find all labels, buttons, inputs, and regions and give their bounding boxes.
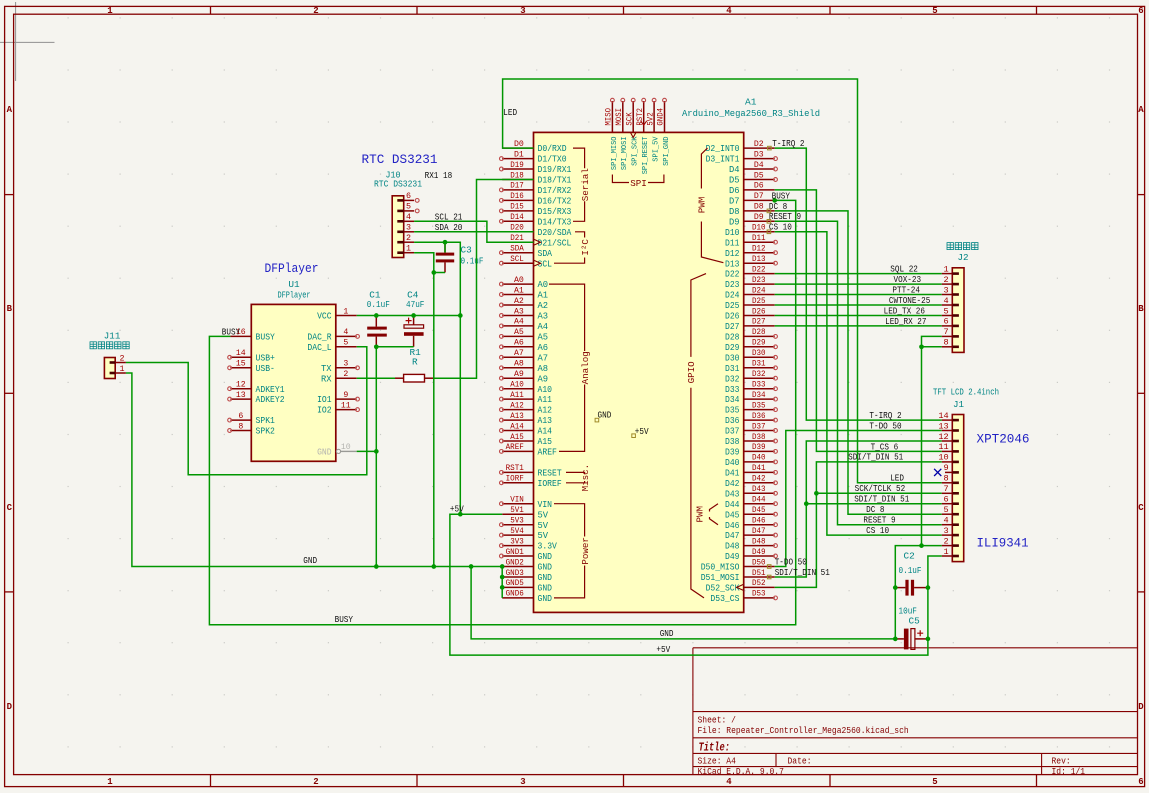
svg-text:LED: LED: [503, 107, 517, 118]
svg-text:5V: 5V: [538, 531, 549, 541]
junction at 806.3,503.7: [804, 501, 809, 506]
svg-text:D8: D8: [754, 203, 764, 212]
svg-text:Rev:: Rev:: [1052, 756, 1071, 767]
net label VOX-23: [894, 274, 922, 285]
svg-text:D25: D25: [725, 301, 740, 311]
svg-text:USB-: USB-: [256, 364, 275, 374]
svg-text:1: 1: [107, 777, 113, 787]
svg-text:D38: D38: [752, 433, 766, 442]
group bracket I2C: [554, 232, 591, 263]
pin A1 D13 (D13): [725, 255, 777, 269]
pin A1 D2 (D2_INT0): [706, 140, 775, 154]
pin A1 A7 (A7): [500, 349, 549, 363]
svg-text:SDA 20: SDA 20: [435, 222, 463, 233]
svg-text:5: 5: [406, 202, 411, 212]
net label T-IRQ 2: [869, 410, 901, 421]
svg-text:DAC_R: DAC_R: [307, 333, 332, 343]
pin A1 A1 (A1): [500, 286, 549, 300]
connector J11 body: [104, 331, 121, 379]
svg-text:GND: GND: [303, 555, 317, 566]
svg-text:14: 14: [236, 349, 246, 358]
pin J1 9: [944, 463, 959, 474]
svg-text:RST1: RST1: [506, 464, 524, 473]
no-connect X at J1 pin 9: [934, 469, 941, 476]
svg-text:D39: D39: [725, 448, 740, 458]
svg-text:A5: A5: [538, 333, 549, 343]
junction at 502.2,587.4: [500, 585, 505, 590]
junction at 376.3,315.5: [374, 313, 379, 318]
svg-text:D39: D39: [752, 443, 766, 452]
svg-text:SPI_5V: SPI_5V: [653, 136, 661, 162]
svg-text:4: 4: [406, 212, 411, 222]
pin A1 D44 (D44): [725, 496, 777, 510]
wire DAC_L net: U1 DAC_L to J11 pin 2: [126, 347, 367, 475]
wire LED_TX 26 net: A1 D26 to J2 pin 5: [775, 315, 942, 317]
wire GND rail: J11 pin1 to A1 GND2: [126, 373, 502, 567]
svg-text:A15: A15: [510, 433, 524, 442]
svg-text:5V3: 5V3: [510, 517, 524, 526]
pin J1 10: [938, 453, 959, 464]
label anchor marker: [767, 230, 771, 234]
svg-text:5: 5: [932, 6, 937, 16]
pin J2 4: [942, 296, 959, 307]
svg-text:MISO: MISO: [605, 108, 614, 126]
svg-text:A9: A9: [538, 374, 549, 384]
svg-text:A2: A2: [538, 301, 549, 311]
svg-text:D35: D35: [725, 406, 740, 416]
pin A1 A0 (A0): [500, 276, 549, 290]
svg-text:A3: A3: [514, 307, 524, 316]
svg-text:A13: A13: [510, 412, 524, 421]
pin A1 A11 (A11): [500, 391, 553, 405]
svg-text:C2: C2: [904, 551, 915, 562]
wire SDA net: J10 pin3 to A1 D20/SDA: [414, 231, 533, 233]
pin A1 D4 (D4): [729, 161, 777, 175]
label anchor marker: [767, 565, 771, 569]
svg-text:D44: D44: [752, 496, 766, 505]
pin A1 IORF (IOREF): [500, 475, 562, 489]
svg-text:D22: D22: [725, 270, 740, 280]
junction at 460.3,514.2: [458, 512, 463, 517]
svg-text:3.3V: 3.3V: [538, 542, 558, 552]
svg-text:D36: D36: [725, 416, 740, 426]
pin A1 D18 (D18/TX1): [502, 171, 571, 185]
pin J1 12: [938, 432, 959, 443]
pin A1 D38 (D38): [725, 433, 777, 447]
pin J2 6: [942, 317, 959, 328]
svg-text:SPI: SPI: [630, 178, 647, 189]
svg-text:A8: A8: [538, 364, 549, 374]
label anchor marker: [768, 146, 772, 150]
svg-text:SDA: SDA: [510, 245, 524, 254]
junction at 502.2,566.5: [500, 564, 505, 569]
svg-text:D41: D41: [752, 464, 766, 473]
pin A1 A3 (A3): [500, 307, 549, 321]
svg-text:J11: J11: [104, 331, 121, 342]
junction at 927.9,638.9: [926, 637, 931, 642]
pin J1 3: [942, 526, 959, 536]
connector J2 body: [952, 252, 968, 353]
pin A1 AREF (AREF): [500, 443, 557, 457]
svg-text:D6: D6: [754, 182, 764, 191]
net label SDI/T_DIN 51: [854, 494, 910, 505]
pin U1 8 (SPK2): [228, 422, 275, 436]
svg-text:Id: 1/1: Id: 1/1: [1052, 766, 1086, 777]
pin A1 D31 (D31): [725, 360, 777, 374]
svg-text:7: 7: [944, 327, 949, 337]
pin U1 11 (IO2): [317, 401, 359, 415]
svg-text:SPI_SCK: SPI_SCK: [632, 136, 640, 166]
pin A1 5V2 (SPI_5V): [646, 98, 660, 161]
net label CS 10: [769, 222, 792, 233]
svg-text:D29: D29: [752, 339, 766, 348]
pin J10 2: [397, 233, 414, 244]
wire C3 bottom to GND branch: [434, 272, 445, 274]
svg-text:A13: A13: [538, 416, 553, 426]
svg-text:RESET 9: RESET 9: [863, 514, 895, 525]
svg-text:D19: D19: [510, 161, 524, 170]
svg-text:A9: A9: [514, 370, 524, 379]
pin A1 A4 (A4): [500, 318, 549, 332]
net label LED: [503, 107, 517, 118]
svg-text:SCK: SCK: [625, 112, 634, 125]
svg-text:PWM: PWM: [697, 197, 708, 214]
svg-text:BUSY: BUSY: [222, 326, 241, 337]
svg-text:D5: D5: [729, 176, 740, 186]
svg-text:5: 5: [944, 306, 949, 316]
pin U1 14 (USB+): [228, 349, 275, 363]
svg-text:SPK1: SPK1: [256, 416, 275, 426]
text RTC DS3231 title: [362, 153, 438, 167]
pin J1 2: [942, 536, 959, 546]
label anchor marker: [767, 575, 771, 579]
svg-text:D43: D43: [752, 485, 766, 494]
svg-text:CS 10: CS 10: [769, 222, 792, 233]
svg-text:6: 6: [406, 191, 411, 201]
svg-text:Date:: Date:: [788, 756, 812, 767]
svg-text:A4: A4: [514, 318, 524, 327]
pin A1 D28 (D28): [725, 328, 777, 342]
svg-text:8: 8: [238, 422, 243, 431]
pin J10 4: [397, 212, 414, 223]
net label SCK/TCLK 52: [855, 483, 906, 494]
pin A1 A13 (A13): [500, 412, 553, 426]
svg-text:DFPlayer: DFPlayer: [265, 262, 319, 276]
pin A1 A14 (A14): [500, 422, 553, 436]
wire GND net: C1 bottom to C4 bottom: [376, 346, 413, 348]
svg-text:D36: D36: [752, 412, 766, 421]
svg-text:D28: D28: [725, 333, 740, 343]
pin A1 D32 (D32): [725, 370, 777, 384]
svg-text:A12: A12: [510, 401, 524, 410]
resistor R1: [395, 347, 433, 382]
svg-text:Analog: Analog: [580, 351, 591, 384]
svg-text:4: 4: [726, 6, 732, 16]
pin A1 D50 (D50_MISO): [701, 558, 775, 572]
pin A1 D19 (D19/RX1): [500, 161, 572, 175]
wire CS net: A1 D10 to J1 pin3: [775, 232, 942, 535]
svg-text:A: A: [1138, 105, 1144, 115]
svg-text:T-IRQ 2: T-IRQ 2: [869, 410, 901, 421]
wire +5V net: U1 VCC to vertical: [357, 315, 461, 317]
net label LED_TX 26: [884, 305, 925, 316]
junction at 927.9,587.6: [926, 585, 931, 590]
svg-text:5V2: 5V2: [646, 112, 655, 125]
svg-text:B: B: [1138, 304, 1144, 314]
svg-text:DAC_L: DAC_L: [307, 343, 331, 353]
svg-text:D9: D9: [729, 217, 740, 227]
pin A1 D46 (D46): [725, 517, 777, 531]
svg-text:D3_INT1: D3_INT1: [706, 155, 740, 165]
svg-text:A3: A3: [538, 312, 549, 322]
svg-text:ADKEY1: ADKEY1: [256, 385, 285, 395]
junction at 895.3,587.6: [893, 585, 898, 590]
pin A1 D7 (D7): [729, 192, 775, 206]
pin A1 GND6 (GND): [502, 590, 552, 604]
svg-text:SCL: SCL: [510, 255, 524, 264]
svg-text:PWM: PWM: [695, 506, 706, 523]
pin A1 5V3 (5V): [500, 517, 549, 531]
junction at 774.7,200.4: [772, 198, 777, 203]
pin J2 5: [942, 306, 959, 317]
svg-text:D4: D4: [754, 161, 764, 170]
net label CWTONE-25: [889, 295, 930, 306]
svg-text:SDA: SDA: [538, 249, 553, 259]
svg-text:BUSY: BUSY: [335, 614, 354, 625]
svg-text:J2: J2: [957, 252, 968, 263]
wire GND net: J2 pin7/8 column to J1 pin2 row: [922, 336, 942, 545]
pin A1 D11 (D11): [725, 234, 777, 248]
svg-text:D46: D46: [752, 517, 766, 526]
wire VCC branch to C3 top: [444, 242, 446, 252]
net label GND: [660, 628, 674, 639]
pin J1 6: [942, 495, 959, 506]
svg-text:A10: A10: [538, 385, 553, 395]
svg-text:3: 3: [406, 223, 411, 233]
svg-text:2: 2: [313, 777, 318, 787]
wire GND net: J2 pin8 stub: [922, 346, 942, 348]
pin J1 13: [938, 421, 959, 432]
svg-text:RTC DS3231: RTC DS3231: [362, 153, 438, 167]
svg-text:D21/SCL: D21/SCL: [538, 238, 572, 248]
wire GND net: U1 GND pin to vertical: [357, 450, 377, 452]
svg-text:11: 11: [341, 401, 351, 410]
pin J2 1: [942, 264, 959, 275]
svg-text:D9: D9: [754, 213, 764, 222]
svg-text:8: 8: [944, 338, 949, 348]
wire SDI/T_DIN net: A1 D51 to J1 pin12: [775, 441, 942, 577]
svg-text:A6: A6: [514, 339, 524, 348]
wire SCL net: J10 pin4 to A1 D21/SCL: [414, 221, 533, 242]
svg-text:BUSY: BUSY: [256, 333, 276, 343]
svg-text:D48: D48: [725, 542, 740, 552]
wire SCK/TCLK tap to J1 pin7: [816, 492, 941, 494]
svg-text:A10: A10: [510, 381, 524, 390]
svg-text:2: 2: [944, 536, 949, 546]
pin J1 14: [938, 411, 959, 422]
svg-text:1: 1: [343, 307, 348, 316]
svg-text:D12: D12: [725, 249, 740, 259]
svg-text:B: B: [7, 304, 13, 314]
svg-text:A7: A7: [514, 349, 524, 358]
svg-text:6: 6: [1138, 777, 1143, 787]
svg-text:SPI_MOSI: SPI_MOSI: [621, 137, 629, 171]
svg-text:5V: 5V: [538, 510, 549, 520]
pin A1 D17 (D17/RX2): [500, 182, 572, 196]
svg-text:GND: GND: [538, 594, 553, 604]
svg-text:CWTONE-25: CWTONE-25: [889, 295, 930, 306]
wire RX1 net: A1 D18 to R1 right: [433, 180, 534, 379]
text J11 voice-output Japanese label: [90, 342, 129, 349]
svg-text:SCL 21: SCL 21: [435, 211, 463, 222]
pin J11 2: [110, 353, 126, 364]
pin J1 8: [942, 474, 959, 485]
svg-text:D31: D31: [752, 360, 766, 369]
pin A1 SCK (SPI_SCK): [625, 98, 639, 166]
pin A1 3V3 (3.3V): [500, 537, 558, 551]
svg-text:RTC DS3231: RTC DS3231: [374, 179, 422, 190]
svg-text:D44: D44: [725, 500, 740, 510]
svg-text:10: 10: [341, 443, 351, 452]
svg-text:File: Repeater_Controller_Mega: File: Repeater_Controller_Mega2560.kicad…: [698, 725, 909, 736]
svg-text:T_CS 6: T_CS 6: [871, 441, 899, 452]
junction at 433.8,566.5: [431, 564, 436, 569]
svg-text:4: 4: [726, 777, 732, 787]
svg-text:3V3: 3V3: [510, 537, 524, 546]
junction at 376.3,566.5: [374, 564, 379, 569]
svg-text:GND4: GND4: [657, 108, 666, 126]
junction at 502.2,577.0: [500, 575, 505, 580]
svg-text:GND: GND: [538, 552, 553, 562]
net label LED_RX 27: [885, 316, 926, 327]
pin A1 D42 (D42): [725, 475, 777, 489]
pin A1 D8 (D8): [729, 203, 775, 217]
svg-text:D49: D49: [725, 552, 740, 562]
capacitor C5 10uF polarized: [895, 606, 928, 650]
svg-text:SDI/T_DIN 51: SDI/T_DIN 51: [848, 452, 904, 463]
svg-text:AREF: AREF: [538, 448, 557, 458]
pin A1 A15 (A15): [500, 433, 553, 447]
svg-text:D49: D49: [752, 548, 766, 557]
svg-text:LED_RX 27: LED_RX 27: [885, 316, 926, 327]
svg-text:1: 1: [107, 6, 113, 16]
net label T_CS 6: [871, 441, 899, 452]
svg-text:5V1: 5V1: [510, 506, 524, 515]
svg-text:2: 2: [343, 370, 348, 379]
pin A1 D45 (D45): [725, 506, 777, 520]
pin U1 15 (USB-): [228, 360, 275, 374]
svg-text:D31: D31: [725, 364, 740, 374]
pin A1 D10 (D10): [725, 224, 775, 238]
svg-text:C: C: [7, 503, 13, 513]
IC U1 DFPlayer body: [251, 279, 335, 461]
svg-text:4: 4: [343, 328, 348, 337]
text XPT2046 title: [977, 432, 1030, 447]
svg-text:VOX-23: VOX-23: [894, 274, 922, 285]
pin A1 D51 (D51_MOSI): [701, 569, 775, 583]
wire GND net: J1 pin2 down via C2 left: [895, 546, 941, 639]
pin A1 A6 (A6): [500, 339, 549, 353]
net label RESET 9: [769, 211, 801, 222]
svg-text:SDI/T_DIN 51: SDI/T_DIN 51: [854, 494, 910, 505]
pin A1 GND3 (GND): [502, 569, 552, 583]
svg-text:Misc.: Misc.: [580, 464, 591, 492]
svg-text:Serial: Serial: [580, 168, 591, 201]
pin U1 3 (TX): [321, 360, 359, 374]
pin A1 D22 (D22): [725, 265, 775, 279]
pin A1 GND5 (GND): [502, 579, 552, 593]
pin J1 7: [942, 484, 959, 495]
pin A1 D12 (D12): [725, 245, 777, 259]
pin A1 GND4 (SPI_GND): [657, 98, 671, 166]
group bracket Serial: [573, 148, 591, 221]
svg-text:D15/RX3: D15/RX3: [538, 207, 572, 217]
net label BUSY: [335, 614, 354, 625]
svg-text:T-DO 50: T-DO 50: [869, 420, 901, 431]
pin J10 5: [397, 202, 419, 213]
svg-text:D47: D47: [725, 531, 740, 541]
svg-text:D17/RX2: D17/RX2: [538, 186, 572, 196]
svg-text:15: 15: [236, 360, 246, 369]
op-amp U? no - shield A1 Arduino_Mega2560_R3_Shield body: [534, 97, 821, 613]
svg-text:A14: A14: [510, 422, 524, 431]
svg-text:D43: D43: [725, 489, 740, 499]
svg-text:D30: D30: [752, 349, 766, 358]
svg-text:GND3: GND3: [506, 569, 524, 578]
net label T-DO 50: [869, 420, 901, 431]
pin U1 5 (DAC_L): [307, 339, 356, 353]
svg-text:D42: D42: [752, 475, 766, 484]
svg-text:VIN: VIN: [538, 500, 553, 510]
svg-text:D45: D45: [752, 506, 766, 515]
pin A1 A9 (A9): [500, 370, 549, 384]
net label BUSY: [222, 326, 241, 337]
pin A1 D26 (D26): [725, 307, 775, 321]
title block: [693, 648, 1138, 777]
svg-text:D41: D41: [725, 469, 740, 479]
svg-text:VCC: VCC: [317, 312, 332, 322]
pin U1 9 (IO1): [317, 391, 359, 405]
svg-text:D16/TX2: D16/TX2: [538, 197, 572, 207]
wire SDI/T_DIN tap to J1 pin6: [806, 503, 941, 505]
svg-text:D45: D45: [725, 510, 740, 520]
svg-text:D48: D48: [752, 537, 766, 546]
net label LED: [890, 473, 904, 484]
svg-text:T-DO 50: T-DO 50: [775, 557, 807, 568]
svg-text:A14: A14: [538, 427, 553, 437]
svg-text:D3: D3: [754, 150, 764, 159]
wire DC net: A1 D8 to J1 pin5: [775, 211, 942, 514]
junction at 895.3,638.9: [893, 637, 898, 642]
pin A1 D15 (D15/RX3): [500, 203, 572, 217]
wire LED net: A1 D0 to J1 pin 8: [503, 79, 942, 483]
svg-text:2: 2: [119, 353, 124, 363]
svg-text:A2: A2: [514, 297, 524, 306]
svg-text:6: 6: [944, 495, 949, 505]
pin A1 RST2 (SPI_RESET): [636, 98, 650, 174]
net label GND: [303, 555, 317, 566]
pin A1 D48 (D48): [725, 537, 777, 551]
svg-text:T-IRQ 2: T-IRQ 2: [772, 138, 804, 149]
svg-text:D24: D24: [752, 286, 766, 295]
svg-text:5V: 5V: [538, 521, 549, 531]
svg-text:1: 1: [406, 244, 411, 254]
svg-text:IO2: IO2: [317, 406, 332, 416]
net label SDA 20: [435, 222, 463, 233]
pin U1 6 (SPK1): [228, 412, 275, 426]
svg-text:D5: D5: [754, 171, 764, 180]
junction at 413.6,315.5: [411, 313, 416, 318]
